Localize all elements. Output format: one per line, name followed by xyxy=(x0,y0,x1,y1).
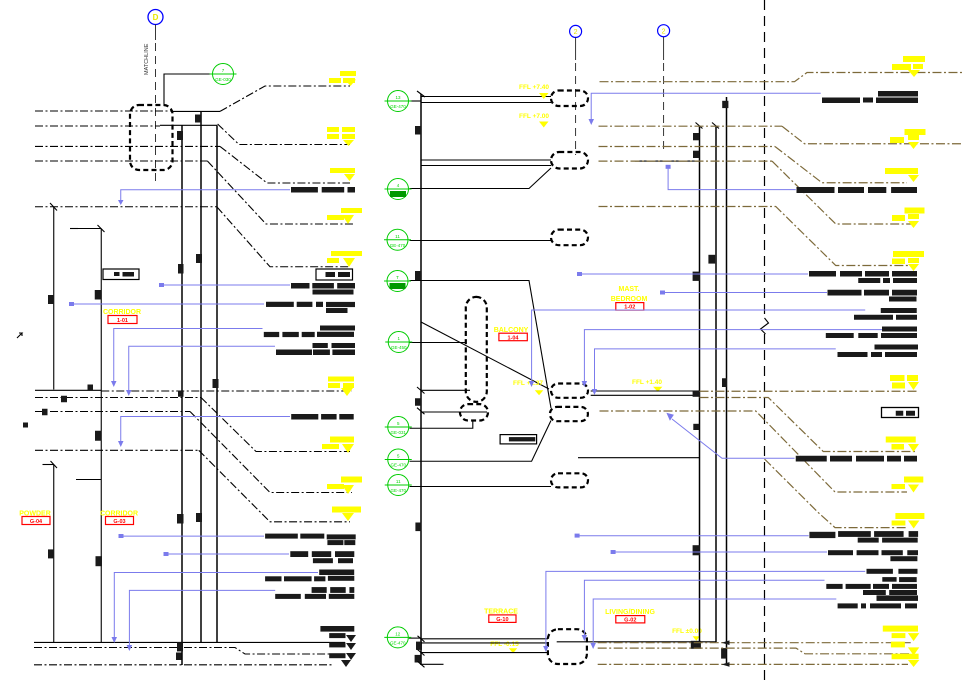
yellow label YL2 xyxy=(327,127,355,146)
ramp R8 xyxy=(190,412,352,493)
yellow label YR8 xyxy=(892,477,924,493)
blue leader T7 xyxy=(595,349,836,389)
interior ledge y228 xyxy=(70,225,105,232)
FFL +1.40 marker xyxy=(632,379,662,392)
text bars R12 xyxy=(826,584,917,595)
FFL +4.40 marker xyxy=(519,84,549,99)
svg-text:FFL -0.15: FFL -0.15 xyxy=(490,641,519,648)
terrace floor pair lower xyxy=(418,636,549,656)
floor pair to pill P1 xyxy=(421,97,551,103)
svg-text:G-04: G-04 xyxy=(30,519,43,525)
ramp R7 xyxy=(201,398,350,452)
blue leader L9 xyxy=(112,573,319,644)
dash-dot y411.5 xyxy=(35,411,190,413)
left interior wall D xyxy=(53,207,55,643)
yellow label YR4 xyxy=(892,208,925,229)
yellow label YR9 xyxy=(892,513,925,529)
ramp R4 xyxy=(207,161,355,224)
svg-text:G-10: G-10 xyxy=(496,617,508,623)
pill P6 xyxy=(551,473,588,487)
balcony tall stadium xyxy=(466,297,487,402)
blue leader L3 xyxy=(69,302,264,306)
svg-text:FFL +7.00: FFL +7.00 xyxy=(519,113,549,120)
corridor label 1-01 xyxy=(103,309,141,324)
svg-text:GE-450: GE-450 xyxy=(391,345,407,350)
brown ramp C2b xyxy=(782,126,962,144)
yellow label YL5 xyxy=(327,251,362,267)
text bars R6 xyxy=(826,327,917,339)
powder label G-04 xyxy=(19,511,51,526)
balcony label 1-04 xyxy=(494,327,529,341)
ledge y464 xyxy=(43,461,58,468)
jamb squares right walls xyxy=(691,101,729,659)
yellow label YR3 xyxy=(885,168,919,182)
text bars R5 xyxy=(854,308,917,320)
blue leader T6 xyxy=(584,330,882,381)
leader to P6 xyxy=(410,486,552,488)
right floor y457.7 xyxy=(578,457,700,459)
pill P2 xyxy=(551,152,588,169)
ledge y479 xyxy=(76,479,101,481)
text bars R7 xyxy=(838,345,919,358)
text bars R10 xyxy=(828,550,918,561)
yellow label YL4 xyxy=(327,208,362,224)
blue leader T3 xyxy=(577,272,808,276)
detail circle GE-030 xyxy=(210,64,237,85)
detail circle GE-470 13 xyxy=(385,91,412,112)
diagonal wall to pill P4 xyxy=(421,322,549,389)
right building wall A xyxy=(696,123,703,645)
right interior line y161 xyxy=(635,160,700,162)
jamb squares on walls A B C xyxy=(176,115,219,661)
blue leader T11 xyxy=(543,571,865,652)
leader GE-031 riser xyxy=(410,421,473,429)
ramp R9 xyxy=(199,450,350,522)
dash-dot y397.5 xyxy=(35,397,201,399)
window box middle xyxy=(500,435,536,444)
terrace label G-10 xyxy=(484,609,518,623)
FFL -0.15 marker xyxy=(490,641,519,653)
detail circle GE-450 1 xyxy=(385,332,412,353)
upper window box mid-left xyxy=(316,269,353,280)
svg-text:11: 11 xyxy=(395,234,400,239)
svg-text:D: D xyxy=(153,13,159,22)
text bars B10 xyxy=(275,587,354,599)
leader to tall stadium xyxy=(410,342,466,344)
detail circle GE-470 12 xyxy=(384,627,411,648)
svg-text:MATCHLINE: MATCHLINE xyxy=(144,43,150,75)
blue leader T1 xyxy=(589,93,821,125)
brown ramp C9 xyxy=(765,459,909,528)
brown line C6 y391 xyxy=(700,390,918,392)
blue leader L8 xyxy=(164,552,290,556)
right floor pair y391 xyxy=(591,391,700,395)
yellow label YL9 xyxy=(332,507,361,522)
yellow label YR6 xyxy=(890,375,919,390)
leader to P3 xyxy=(410,240,552,242)
svg-text:T: T xyxy=(396,275,399,280)
ramp R5 xyxy=(217,207,350,267)
ground slab line xyxy=(557,641,716,643)
dash-dot lines into opening xyxy=(35,111,220,161)
FFL 0.00 marker xyxy=(672,628,702,641)
matchline stem xyxy=(155,25,157,41)
text bar group B1 xyxy=(291,187,318,193)
grid bubble 2a xyxy=(570,25,582,37)
detail circle GE-470 11 xyxy=(384,229,411,250)
grid stem 2b xyxy=(663,37,665,60)
svg-text:BEDROOM: BEDROOM xyxy=(611,296,648,303)
svg-text:FFL ±0.00: FFL ±0.00 xyxy=(672,628,702,635)
mid floor solid y390 xyxy=(35,389,352,392)
blue leader T13 xyxy=(590,599,836,649)
floor arrowheads xyxy=(329,635,356,667)
ground floor dashdot low xyxy=(34,664,332,666)
text bars R11 xyxy=(867,569,918,582)
FFL +4.00 marker xyxy=(519,113,549,128)
svg-text:GE-470: GE-470 xyxy=(390,488,406,493)
brown line C2 xyxy=(599,125,783,127)
text bars B5 xyxy=(276,343,355,355)
dashed opening rect top-left xyxy=(130,105,173,170)
blue leader T4 xyxy=(660,291,827,295)
svg-text:GE-470: GE-470 xyxy=(390,243,406,248)
grid bubble D xyxy=(148,10,163,25)
ground floor dashdot mid xyxy=(34,648,345,655)
text bars R2 xyxy=(797,187,918,193)
yellow label YL1 xyxy=(329,71,356,86)
blue leader L5 xyxy=(126,346,275,396)
svg-text:FFL +1.40: FFL +1.40 xyxy=(632,379,662,386)
brown line C4 xyxy=(599,160,773,162)
svg-text:1-04: 1-04 xyxy=(507,335,519,341)
text bars B8 xyxy=(290,551,354,563)
svg-text:FFL +1.37: FFL +1.37 xyxy=(513,380,543,387)
yellow label YR2 xyxy=(890,129,926,149)
left interior wall E xyxy=(100,229,102,643)
grid stem 2a xyxy=(575,38,577,61)
right building wall B xyxy=(712,123,719,643)
FFL +1.37 marker xyxy=(513,380,543,395)
detail circle 4 filled xyxy=(385,179,412,200)
text bars R8 xyxy=(796,456,917,462)
blue leader L10 xyxy=(127,590,276,651)
brown line C3 xyxy=(599,146,776,148)
text bars B7 xyxy=(265,534,356,546)
svg-text:1-01: 1-01 xyxy=(117,318,128,324)
svg-text:MAST.: MAST. xyxy=(619,286,640,293)
svg-text:G-03: G-03 xyxy=(113,519,125,525)
terrace floor pair upper xyxy=(421,639,548,643)
detail circle GE-031 5 xyxy=(385,417,412,438)
floor pair to pill P2 xyxy=(421,160,551,166)
svg-text:12: 12 xyxy=(395,632,401,637)
living dining label G-02 xyxy=(605,609,655,624)
break mark gamma xyxy=(17,333,22,338)
text bars B2 xyxy=(291,283,355,295)
left wall B xyxy=(200,111,202,642)
svg-text:13: 13 xyxy=(395,95,401,100)
svg-text:2: 2 xyxy=(662,29,666,36)
blue leader T8 xyxy=(666,413,794,459)
yellow label YL3 xyxy=(330,168,355,181)
ramp R1 xyxy=(220,86,350,111)
yellow label YL8 xyxy=(327,477,362,495)
door jamb squares left xyxy=(23,290,102,566)
balcony diagonal upper xyxy=(410,281,552,409)
text bars R1 xyxy=(822,91,918,103)
pill P4 xyxy=(551,384,588,398)
leader GE-030 xyxy=(164,74,213,106)
brown line C5 xyxy=(599,207,918,266)
dash-dot y450 xyxy=(35,449,199,451)
yellow label YR5 xyxy=(892,251,924,271)
svg-text:G-02: G-02 xyxy=(624,618,636,624)
svg-text:GE-030: GE-030 xyxy=(215,77,231,82)
left wall C xyxy=(216,125,218,642)
yellow label YR1 xyxy=(892,56,925,77)
grid bubble 2b xyxy=(658,25,670,37)
middle wall xyxy=(417,91,425,665)
blue leader L1 xyxy=(121,190,290,200)
ramp R3 xyxy=(220,146,350,183)
brown ceiling line C1 xyxy=(600,73,962,82)
brown ramp C4b xyxy=(772,161,917,224)
leader to P2 from GE circle 4 xyxy=(410,168,552,189)
leader circle 13 xyxy=(410,100,422,102)
ramp R2 xyxy=(218,124,350,145)
yellow label YR7 xyxy=(886,437,919,453)
detail circle GE-470 5 xyxy=(385,449,412,470)
blue leader T5 xyxy=(532,310,866,381)
svg-text:GE-470: GE-470 xyxy=(390,104,406,109)
blue leader T9 xyxy=(575,534,809,538)
text bars B3 xyxy=(266,302,355,313)
pill P5 xyxy=(550,407,588,421)
mast bedroom label 1-02 xyxy=(611,286,648,311)
blue leader L7 xyxy=(119,534,265,538)
right building wall C xyxy=(726,97,728,665)
text bars B11 bottom center xyxy=(320,626,354,638)
yellow label YL6 xyxy=(328,377,354,397)
leader pill P5 to GE-470 xyxy=(410,421,552,462)
left wall A xyxy=(181,125,183,665)
text bars R4 xyxy=(828,290,918,302)
pill P3 xyxy=(551,230,588,246)
blue leader L4 xyxy=(111,329,263,388)
text bars B4 xyxy=(264,326,355,338)
brown ramp C7 xyxy=(700,398,918,452)
svg-text:GE-470: GE-470 xyxy=(390,641,406,646)
property line dashed vertical xyxy=(761,0,769,685)
ground floor solid xyxy=(34,641,345,643)
detail circle T filled xyxy=(384,271,411,292)
text bars B6 xyxy=(291,414,318,420)
svg-text:2: 2 xyxy=(574,29,578,36)
blue leader T12 xyxy=(582,580,825,641)
blue leader L6 xyxy=(118,417,290,448)
svg-text:GE-470: GE-470 xyxy=(390,463,406,468)
text bars B9 xyxy=(265,570,354,582)
wall top line y207 xyxy=(35,203,218,211)
window box left xyxy=(103,269,139,280)
blue leader L2 xyxy=(159,283,290,287)
yellow label YR10 cluster xyxy=(883,626,920,667)
text bars R3 xyxy=(809,271,917,283)
terrace stub line xyxy=(421,663,444,665)
brown ramp C3b xyxy=(775,147,907,183)
detail circle GE-470 11b xyxy=(385,475,412,496)
brown ground lines right xyxy=(598,640,912,666)
text bars R13 xyxy=(838,595,918,608)
svg-text:GE-031: GE-031 xyxy=(390,430,406,435)
small stadium xyxy=(460,404,488,420)
yellow label YL7 xyxy=(322,437,354,454)
svg-text:11: 11 xyxy=(396,479,401,484)
jamb squares middle wall xyxy=(415,126,422,663)
text bars R9 xyxy=(809,531,918,543)
pill P1 xyxy=(551,91,588,107)
door pill terrace xyxy=(548,629,587,664)
brown ramp C8 xyxy=(600,411,908,492)
blue leader T2 xyxy=(668,167,796,190)
corridor label G-03 xyxy=(100,511,138,526)
window box right xyxy=(882,408,919,418)
blue leader T10 xyxy=(611,550,827,554)
svg-text:FFL +7.40: FFL +7.40 xyxy=(519,84,549,91)
leader circle 12 xyxy=(409,637,421,639)
